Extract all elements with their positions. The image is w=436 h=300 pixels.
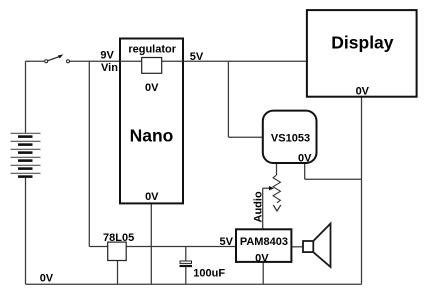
svg-text:0V: 0V: [356, 86, 370, 98]
svg-text:0V: 0V: [255, 252, 269, 264]
svg-text:Audio: Audio: [253, 191, 265, 222]
svg-text:0V: 0V: [40, 272, 54, 284]
svg-text:Display: Display: [331, 33, 394, 53]
svg-text:Nano: Nano: [130, 125, 174, 145]
svg-text:VS1053: VS1053: [271, 132, 310, 144]
svg-text:0V: 0V: [145, 82, 159, 94]
svg-text:0V: 0V: [298, 153, 312, 165]
svg-text:regulator: regulator: [128, 43, 176, 55]
svg-text:5V: 5V: [220, 236, 234, 248]
svg-text:100uF: 100uF: [193, 267, 225, 279]
svg-text:78L05: 78L05: [103, 232, 134, 244]
svg-text:5V: 5V: [190, 51, 204, 63]
svg-text:Vin: Vin: [101, 62, 118, 74]
svg-text:0V: 0V: [145, 191, 159, 203]
svg-text:9V: 9V: [100, 50, 114, 62]
svg-text:PAM8403: PAM8403: [240, 236, 288, 248]
